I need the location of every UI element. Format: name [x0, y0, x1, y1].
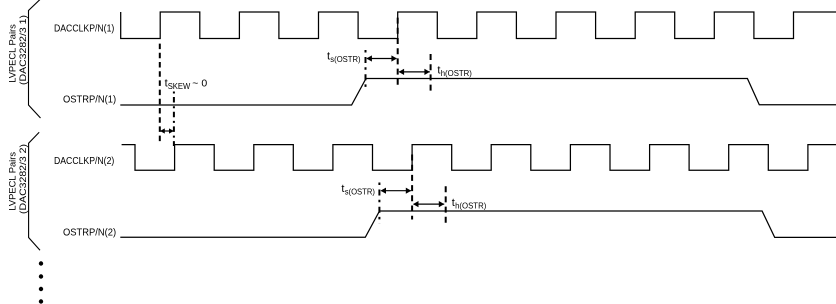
- dashed line th1 hold boundary: [430, 54, 432, 91]
- svg-text:(DAC3282/3 2): (DAC3282/3 2): [18, 144, 28, 214]
- svg-text:OSTRP/N(2): OSTRP/N(2): [63, 228, 116, 239]
- svg-text:LVPECL Pairs: LVPECL Pairs: [8, 151, 18, 210]
- waveform DACCLKP/N(2) clock: [122, 145, 836, 171]
- waveform DACCLKP/N(1) clock: [121, 12, 836, 39]
- arrow th(OSTR) row 2 (double-headed): [414, 203, 445, 205]
- arrow tSKEW (double-headed): [161, 130, 174, 132]
- svg-text:SKEW: SKEW: [168, 82, 191, 91]
- waveform OSTRP/N(1): [120, 79, 836, 106]
- dashed line OSTR1 rising edge: [365, 50, 367, 90]
- svg-text:h(OSTR): h(OSTR): [441, 69, 473, 78]
- bracket group 2: [29, 132, 40, 250]
- waveform OSTRP/N(2): [120, 211, 836, 237]
- svg-text:(DAC3282/3 1): (DAC3282/3 1): [18, 15, 28, 85]
- svg-text:LVPECL Pairs: LVPECL Pairs: [8, 24, 18, 83]
- svg-text:~ 0: ~ 0: [192, 78, 207, 90]
- svg-text:h(OSTR): h(OSTR): [455, 201, 487, 210]
- dashed line tSKEW left (clock1 rising edge): [159, 44, 161, 143]
- bracket group 1: [29, 0, 41, 118]
- dashed line clock1 4th rising edge: [397, 18, 399, 87]
- svg-text:DACCLKP/N(2): DACCLKP/N(2): [54, 156, 114, 167]
- arrow th(OSTR) row 1 (double-headed): [399, 71, 430, 73]
- svg-text:OSTRP/N(1): OSTRP/N(1): [63, 95, 116, 106]
- svg-text:s(OSTR): s(OSTR): [330, 55, 361, 64]
- dashed line clock2 4th rising edge: [411, 155, 413, 220]
- svg-text:DACCLKP/N(1): DACCLKP/N(1): [54, 24, 114, 35]
- ellipsis dots (more pairs below): [39, 261, 43, 265]
- dashed line th2 hold boundary: [445, 186, 447, 223]
- dashed line tSKEW right (clock2 rising edge): [173, 92, 175, 147]
- arrow ts(OSTR) row 2 (double-headed): [381, 190, 411, 192]
- arrow ts(OSTR) row 1 (double-headed): [367, 58, 396, 60]
- dashed line OSTR2 rising edge: [378, 183, 380, 225]
- svg-text:s(OSTR): s(OSTR): [345, 187, 376, 196]
